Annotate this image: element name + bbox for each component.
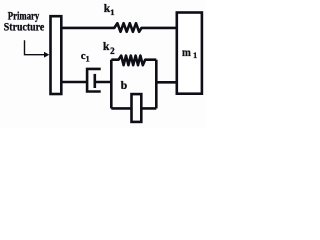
svg-text:k: k <box>103 41 110 53</box>
svg-text:m: m <box>182 45 191 59</box>
svg-text:1: 1 <box>110 7 114 17</box>
svg-text:Structure: Structure <box>4 19 45 33</box>
svg-text:1: 1 <box>86 54 90 64</box>
svg-text:1: 1 <box>193 50 197 60</box>
svg-text:2: 2 <box>110 46 115 56</box>
svg-text:b: b <box>121 80 127 92</box>
